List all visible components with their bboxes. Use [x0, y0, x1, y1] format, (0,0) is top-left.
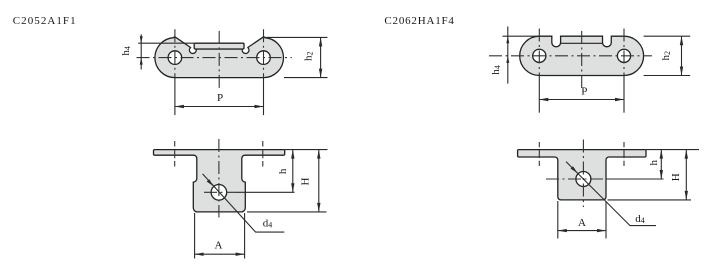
- A extension line left: [194, 213, 196, 259]
- vertical centerline left hole: [174, 29, 176, 77]
- label h2: [303, 52, 315, 62]
- h4 dimension line: [507, 27, 509, 84]
- H arrow down: [317, 203, 320, 212]
- h2 arrow up: [319, 37, 322, 46]
- centerline tick right pin: [262, 141, 264, 167]
- bottom extension line: [608, 199, 692, 201]
- centerline tick left pin: [174, 141, 176, 167]
- label h4: [490, 65, 502, 75]
- A extension line left: [557, 201, 559, 239]
- top extension line (flange top level): [285, 149, 328, 151]
- label h2: [660, 51, 672, 61]
- h arrow down: [291, 183, 294, 192]
- svg-text:C2052A1F1: C2052A1F1: [13, 15, 77, 27]
- centerline tick left pin: [538, 142, 540, 166]
- svg-text:h: h: [648, 159, 660, 165]
- P extension line left: [174, 78, 176, 116]
- label h: [648, 159, 660, 165]
- svg-text:h2: h2: [660, 51, 672, 61]
- h dimension line: [660, 150, 662, 179]
- label H: [300, 177, 312, 185]
- label H: [670, 173, 682, 181]
- h2 top extension line: [264, 36, 328, 38]
- bent lug tab (edge view): [194, 43, 244, 49]
- label h: [277, 168, 289, 174]
- h2/plate bottom extension line: [284, 77, 328, 79]
- h2 arrow up: [680, 36, 683, 45]
- h4 extension line: [138, 42, 194, 44]
- svg-text:h4: h4: [490, 65, 502, 75]
- h2 bottom extension line: [644, 75, 691, 77]
- h2 arrow down: [319, 69, 322, 78]
- A arrow left: [195, 253, 204, 256]
- hole-center extension line: [236, 191, 295, 193]
- H dimension line: [318, 150, 320, 212]
- top extension line: [646, 149, 699, 151]
- hole left: [168, 51, 182, 65]
- h arrow down: [660, 170, 663, 179]
- d4 leader line: [566, 162, 656, 226]
- h2 dimension line: [681, 36, 683, 75]
- H arrow down: [685, 191, 688, 200]
- vertical centerline left hole: [538, 29, 540, 76]
- svg-text:A: A: [215, 240, 223, 252]
- h2 arrow down: [680, 67, 683, 76]
- P extension line right: [623, 76, 625, 113]
- H dimension line: [685, 150, 687, 200]
- svg-text:d4: d4: [635, 213, 645, 225]
- P arrow right: [255, 105, 264, 108]
- plate silhouette: [155, 37, 284, 78]
- svg-text:A: A: [578, 217, 586, 229]
- tab fold line: [561, 42, 603, 44]
- centerline tick right pin: [623, 142, 625, 166]
- P arrow left: [539, 98, 548, 101]
- P extension line right: [263, 78, 265, 116]
- h4 arrow at centerline: [506, 56, 509, 63]
- hole left: [533, 49, 546, 62]
- h4 arrow down: [140, 36, 143, 43]
- A arrow left: [558, 229, 567, 232]
- central vertical centerline: [218, 139, 220, 218]
- A extension line right: [244, 213, 246, 259]
- vertical centerline middle: [218, 31, 220, 88]
- h arrow up: [660, 150, 663, 159]
- vertical centerline middle: [581, 31, 583, 90]
- h2 dimension line: [320, 37, 322, 77]
- svg-text:h: h: [277, 168, 289, 174]
- d4 leader arrowhead: [571, 166, 578, 173]
- h4 arrow up: [140, 58, 143, 65]
- P arrow left: [175, 105, 184, 108]
- label h4: [120, 46, 132, 56]
- P extension line left: [538, 76, 540, 113]
- svg-text:h2: h2: [303, 52, 315, 62]
- vertical centerline right hole: [623, 29, 625, 76]
- hole d4: [576, 172, 591, 187]
- svg-text:H: H: [670, 173, 682, 181]
- h arrow up: [291, 150, 294, 159]
- bracket silhouette: flange + stepped body: [154, 150, 285, 212]
- A dimension line: [558, 230, 606, 232]
- d4 leader arrowhead: [207, 179, 214, 186]
- h4 arrow at top line: [506, 36, 509, 43]
- plate silhouette with slots: [520, 36, 644, 75]
- bottom extension line: [247, 211, 327, 213]
- P arrow right: [615, 98, 624, 101]
- svg-text:H: H: [300, 177, 312, 185]
- hole horizontal centerline: [546, 178, 603, 180]
- A dimension line: [195, 253, 245, 255]
- svg-text:h4: h4: [120, 46, 132, 56]
- central vertical centerline: [582, 140, 584, 208]
- svg-text:P: P: [217, 92, 223, 104]
- P dimension line: [539, 99, 624, 101]
- H arrow up: [317, 150, 320, 159]
- h2 top extension line: [644, 35, 691, 37]
- hole-center extension line: [606, 178, 664, 180]
- svg-text:d4: d4: [263, 218, 273, 230]
- hole right: [617, 49, 630, 62]
- hole horizontal centerline: [204, 191, 236, 193]
- bracket silhouette: flange + box body: [518, 150, 646, 200]
- hole right: [257, 51, 271, 65]
- A arrow right: [236, 253, 245, 256]
- A arrow right: [597, 229, 606, 232]
- P dimension line: [175, 106, 264, 108]
- A extension line right: [605, 201, 607, 239]
- d4 leader line: [203, 174, 285, 232]
- h4 dimension line: [140, 34, 142, 69]
- horizontal centerline: [489, 55, 652, 57]
- horizontal centerline: [137, 57, 292, 59]
- svg-text:C2062HA1F4: C2062HA1F4: [384, 15, 454, 27]
- svg-text:P: P: [581, 86, 587, 98]
- H arrow up: [685, 150, 688, 159]
- hole d4: [211, 185, 227, 201]
- h dimension line: [292, 150, 294, 193]
- vertical centerline right hole: [263, 29, 265, 77]
- h4 top extension line: [503, 35, 540, 37]
